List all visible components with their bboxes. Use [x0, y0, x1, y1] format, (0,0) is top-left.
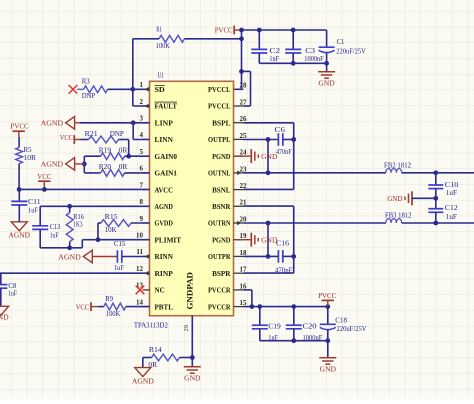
pin 11 (RINN) — [136, 248, 173, 261]
wire C15 to pin 11 RINN — [122, 254, 150, 259]
junction BS column bottom — [291, 254, 296, 259]
IC U1 TPA3113D2 body — [134, 71, 234, 330]
ground AGND (below C11) — [9, 222, 31, 240]
svg-text:GND: GND — [387, 194, 403, 203]
svg-text:19: 19 — [240, 232, 248, 240]
wire R19 to pin 5 GAIN0 — [125, 155, 150, 157]
junction OUTPR node — [266, 254, 271, 259]
svg-text:RINP: RINP — [155, 269, 174, 278]
junction cap bottom rail 2 — [291, 338, 330, 343]
junction cap bottom rail — [291, 61, 329, 66]
svg-text:FB3 1812: FB3 1812 — [385, 211, 412, 220]
ground AGND (R14) — [132, 368, 155, 386]
capacitor C20 1000nF — [286, 307, 323, 342]
svg-text:GAIN0: GAIN0 — [155, 152, 178, 161]
resistor R1 100K — [156, 24, 185, 50]
junction PLIMIT — [96, 237, 101, 242]
wire pin 26 BSPL elbow — [244, 123, 294, 140]
ground GND (pin 19 PGND) — [236, 233, 278, 247]
capacitor C18 220uF/25V polarized — [320, 307, 367, 341]
resistor R21 DNP — [81, 129, 124, 143]
pin 18 (OUTPR) — [208, 249, 247, 261]
ground GND (GNDPAD) — [184, 358, 201, 383]
wire R9 to pin 14 PBTL — [126, 306, 150, 308]
svg-text:BSNR: BSNR — [212, 202, 231, 211]
svg-text:R20: R20 — [99, 162, 112, 171]
svg-text:16: 16 — [240, 282, 248, 290]
svg-text:1000nF: 1000nF — [304, 54, 323, 63]
svg-text:PGND: PGND — [212, 152, 231, 161]
pin 4 (LINN) — [140, 131, 174, 144]
pin 5 (GAIN0) — [140, 148, 178, 161]
wire FB3 to output R — [402, 222, 474, 224]
pin 12 (RINP) — [136, 265, 173, 278]
svg-text:AVCC: AVCC — [155, 185, 173, 194]
svg-text:1uF: 1uF — [446, 188, 457, 197]
svg-text:100K: 100K — [106, 309, 121, 318]
wire net SD: R1 left lead down to pin1 node — [133, 39, 159, 90]
wire AVCC rail to pin 7 — [19, 188, 149, 190]
power port PVCC (top) — [215, 26, 242, 35]
wire R21 to GAIN0 node — [119, 140, 129, 157]
ground AGND (C15) — [58, 250, 117, 263]
junction gain AGND — [82, 162, 87, 167]
wire gain AGND column — [83, 156, 85, 173]
svg-text:GVDD: GVDD — [155, 219, 174, 228]
svg-text:2: 2 — [140, 98, 144, 106]
svg-text:15: 15 — [240, 299, 248, 307]
svg-text:VCC: VCC — [60, 133, 73, 142]
ground AGND (gain) — [41, 158, 85, 171]
svg-text:BSNL: BSNL — [212, 185, 230, 194]
resistor R20 0R — [84, 162, 127, 176]
svg-text:220uF/25V: 220uF/25V — [337, 324, 368, 333]
svg-text:C19: C19 — [268, 321, 281, 330]
svg-text:PVCC: PVCC — [318, 291, 336, 300]
svg-text:5: 5 — [140, 148, 144, 156]
junction output L — [433, 170, 438, 175]
svg-text:GND: GND — [320, 365, 337, 374]
capacitor C2 1nF — [251, 30, 280, 63]
svg-text:GND: GND — [318, 79, 335, 88]
capacitor C11 1uF — [11, 189, 41, 221]
svg-text:1uF: 1uF — [114, 263, 124, 272]
svg-text:PBTL: PBTL — [155, 302, 173, 311]
wire pin 18 OUTPR — [244, 255, 279, 257]
junction output GND rail — [433, 196, 438, 201]
junction node SD — [130, 87, 135, 92]
svg-text:11: 11 — [136, 248, 143, 256]
pin 7 (AVCC) — [140, 181, 173, 194]
svg-text:OUTNL: OUTNL — [208, 169, 231, 178]
svg-text:PVCCL: PVCCL — [208, 85, 231, 94]
pin 1 (SD) — [140, 81, 166, 94]
svg-text:4: 4 — [140, 131, 144, 139]
wire pin 20 OUTRN to FB3 — [237, 221, 386, 226]
svg-text:AGND: AGND — [132, 377, 155, 386]
wire R14 right to GNDPAD net — [180, 357, 193, 359]
wire AGND to pin 3 LINP — [80, 122, 150, 124]
wire pin 21 BSNR elbow — [244, 206, 294, 256]
junction R16 bottom — [67, 245, 72, 250]
svg-text:R21: R21 — [85, 129, 98, 138]
wire pin 16 PVCCR elbow — [244, 290, 252, 307]
pin 8 (AGND) — [140, 198, 174, 211]
junction AVCC rail — [17, 187, 47, 192]
capacitor C16 470nF — [275, 239, 293, 275]
svg-text:BSPR: BSPR — [212, 269, 231, 278]
power port VCC (R21) — [60, 133, 81, 144]
svg-text:14: 14 — [136, 298, 144, 306]
svg-text:VCC: VCC — [37, 172, 51, 181]
svg-text:FAULT: FAULT — [155, 102, 178, 111]
svg-text:C16: C16 — [276, 239, 289, 248]
svg-text:PVCCR: PVCCR — [208, 286, 231, 295]
pin 29 (GNDPAD) stub wire — [183, 316, 192, 358]
wire LINP to pin 4 LINN — [133, 123, 149, 140]
power port VCC (R9) — [76, 302, 98, 311]
resistor R3 DNP — [82, 77, 108, 100]
resistor R19 0R — [84, 146, 127, 160]
svg-text:100K: 100K — [156, 41, 171, 50]
no-connect X pin 13 — [136, 286, 145, 295]
svg-text:AGND: AGND — [58, 252, 81, 261]
pin 24 (PGND) — [212, 149, 247, 161]
pin 25 (OUTPL) — [208, 132, 247, 144]
svg-text:U1: U1 — [158, 71, 165, 80]
svg-text:10: 10 — [136, 232, 144, 240]
svg-text:R1: R1 — [156, 24, 162, 33]
capacitor C3 1000nF — [285, 30, 323, 63]
junction output R — [433, 221, 438, 226]
svg-text:29: 29 — [183, 324, 190, 331]
wire C16 right to BS column — [283, 255, 294, 257]
wire pin 12 RINP long — [0, 271, 150, 276]
capacitor C1 220uF/25V polarized — [319, 30, 367, 63]
junction PVCC rail — [239, 28, 296, 33]
capacitor C10 1uF — [428, 173, 458, 199]
ground GND (top block) — [318, 63, 335, 87]
wire PLIMIT lower rail — [40, 240, 98, 248]
pin 23 (OUTNL) — [208, 165, 247, 177]
svg-text:470nF: 470nF — [276, 147, 292, 156]
junction GAIN0 — [126, 154, 131, 159]
svg-text:R19: R19 — [99, 146, 112, 155]
resistor R16 1K3 — [66, 206, 84, 248]
resistor R9 100K — [98, 294, 126, 318]
svg-text:FB2 1812: FB2 1812 — [384, 160, 411, 169]
capacitor C8 1uF (clipped at edge) — [0, 273, 17, 306]
svg-text:BSPL: BSPL — [212, 118, 230, 127]
junction R1/PVCC column — [239, 36, 244, 73]
svg-text:1: 1 — [140, 81, 144, 89]
svg-text:1uF: 1uF — [50, 230, 59, 239]
capacitor C19 1nF — [252, 307, 281, 342]
svg-text:TPA3113D2: TPA3113D2 — [134, 321, 168, 330]
wire R15 to pin 9 GVDD — [131, 222, 150, 224]
junction OUTNL — [266, 170, 271, 175]
pin 21 (BSNR) — [212, 199, 247, 211]
pin 20 (OUTRN) — [208, 215, 247, 227]
svg-text:1K3: 1K3 — [73, 219, 83, 228]
power port PVCC (left) — [11, 122, 29, 137]
svg-text:7: 7 — [140, 181, 144, 189]
ground GND (output filter) — [387, 191, 436, 205]
wire R1 right lead to PVCC column — [185, 38, 242, 40]
junction PVCCR rail — [250, 304, 331, 309]
wire R3 to pin 1 — [108, 87, 150, 92]
wire R14 left to AGND — [143, 358, 152, 368]
svg-text:3: 3 — [140, 115, 144, 123]
pin 19 (PGND) — [212, 232, 247, 244]
junction BS column top — [291, 137, 296, 142]
svg-text:GAIN1: GAIN1 — [155, 169, 178, 178]
junction OUTPL node — [266, 137, 271, 142]
junction OUTRN — [266, 221, 271, 226]
wire drop to pin 2 FAULT — [133, 89, 150, 108]
svg-text:1uF: 1uF — [8, 288, 17, 297]
wire OUTPL to OUTNL tie — [267, 140, 269, 173]
svg-text:220uF/25V: 220uF/25V — [336, 46, 366, 55]
svg-text:0R: 0R — [119, 146, 128, 155]
power port VCC (left) — [37, 172, 51, 190]
svg-text:C20: C20 — [303, 321, 317, 330]
svg-text:AGND: AGND — [9, 230, 31, 239]
wire cap bottom rail (top block) — [259, 62, 326, 64]
svg-text:R9: R9 — [105, 294, 113, 303]
wire pin 8 AGND net — [40, 205, 149, 207]
resistor R15 10K — [98, 212, 131, 240]
pin 3 (LINP) — [140, 115, 174, 128]
svg-text:PVCCL: PVCCL — [208, 102, 231, 111]
wire PVCC rail top — [242, 29, 327, 31]
svg-text:PVCC: PVCC — [11, 122, 29, 131]
pin 16 (PVCCR) — [208, 282, 247, 294]
svg-text:AGND: AGND — [41, 119, 64, 128]
pin 14 (PBTL) — [136, 298, 173, 311]
svg-text:AGND: AGND — [155, 202, 174, 211]
ferrite bead FB2 1812 — [384, 160, 411, 173]
svg-text:10K: 10K — [105, 225, 118, 234]
resistor R5 10R — [16, 137, 36, 164]
svg-text:R15: R15 — [105, 212, 118, 221]
svg-text:R14: R14 — [149, 345, 162, 354]
svg-text:C1: C1 — [337, 37, 345, 46]
svg-text:PLIMIT: PLIMIT — [155, 235, 182, 244]
svg-text:6: 6 — [140, 165, 144, 173]
pin 28 (PVCCL) — [208, 82, 247, 94]
svg-text:DNP: DNP — [82, 91, 96, 100]
wire R5 to AVCC rail — [18, 164, 20, 190]
ground GND (pin 24 PGND) — [236, 149, 278, 163]
pin 13 (NC) — [136, 282, 165, 295]
ground AGND (C8, clipped) — [0, 306, 9, 321]
capacitor C6 470nF — [275, 125, 292, 156]
wire pin 25 OUTPL — [244, 139, 279, 141]
svg-text:PGND: PGND — [212, 235, 231, 244]
pin 26 (BSPL) — [212, 115, 247, 127]
svg-text:26: 26 — [240, 115, 248, 123]
svg-text:10R: 10R — [24, 153, 37, 162]
wire cap bottom rail (bottom block) — [260, 340, 328, 342]
power port PVCC (bottom) — [318, 291, 336, 307]
svg-text:1nF: 1nF — [269, 54, 279, 63]
svg-text:RINN: RINN — [155, 252, 174, 261]
junction R16 top — [67, 204, 72, 209]
svg-text:VCC: VCC — [76, 303, 90, 312]
pin 10 (PLIMIT) — [136, 232, 181, 245]
wire R20 to pin 6 GAIN1 — [125, 172, 150, 174]
svg-text:C6: C6 — [275, 125, 286, 134]
wire PVCC column to pins 28/27 — [236, 30, 251, 106]
no-connect X on R3 left — [69, 85, 84, 94]
svg-text:PVCCR: PVCCR — [208, 302, 231, 311]
ferrite bead FB3 1812 — [385, 211, 412, 223]
wire FB2 to output L — [402, 172, 474, 174]
svg-text:8: 8 — [140, 198, 144, 206]
svg-text:AGND: AGND — [41, 160, 64, 169]
svg-text:0R: 0R — [119, 162, 128, 171]
resistor R14 0R — [148, 345, 179, 369]
capacitor C15 1uF — [114, 239, 126, 272]
capacitor C13 1uF — [32, 206, 60, 248]
svg-text:C15: C15 — [114, 239, 126, 248]
svg-text:NC: NC — [155, 286, 165, 295]
svg-text:LINP: LINP — [155, 118, 174, 127]
pin 9 (GVDD) — [140, 215, 174, 228]
svg-text:1uF: 1uF — [28, 205, 38, 214]
svg-text:GND: GND — [261, 152, 278, 161]
svg-text:LINN: LINN — [155, 135, 174, 144]
svg-text:25: 25 — [240, 132, 248, 140]
svg-text:9: 9 — [140, 215, 144, 223]
wire PVCCR rail — [244, 306, 328, 308]
pin 2 (FAULT) — [140, 98, 178, 111]
svg-text:DNP: DNP — [110, 129, 124, 138]
svg-text:AGND: AGND — [0, 313, 9, 322]
svg-text:GND: GND — [184, 374, 201, 383]
wire pin 10 PLIMIT — [98, 239, 150, 241]
svg-text:1uF: 1uF — [446, 212, 457, 221]
pin 6 (GAIN1) — [140, 165, 178, 178]
wire OUTRN to OUTPR tie — [267, 223, 269, 256]
junction GNDPAD net — [190, 355, 195, 360]
capacitor C12 1uF — [428, 198, 458, 223]
ground GND (bottom block) — [319, 341, 336, 374]
svg-text:12: 12 — [136, 265, 144, 273]
ground AGND (pin3) — [41, 117, 80, 130]
svg-text:OUTRN: OUTRN — [208, 219, 231, 228]
junction LINP — [131, 120, 136, 125]
svg-text:SD: SD — [155, 85, 166, 94]
svg-text:OUTPL: OUTPL — [208, 135, 231, 144]
svg-text:PVCC: PVCC — [215, 26, 233, 35]
wire C6 right to BS column — [283, 139, 294, 141]
wire pin 23 OUTNL to FB2 — [237, 171, 386, 176]
pin 27 (PVCCL) — [208, 98, 247, 110]
pin 22 (BSNL) — [212, 182, 247, 194]
pin 15 (PVCCR) — [208, 299, 247, 311]
svg-text:R3: R3 — [82, 77, 90, 86]
wire pin 17 BSPR elbow — [244, 256, 294, 273]
svg-text:OUTPR: OUTPR — [208, 252, 231, 261]
pin 17 (BSPR) — [212, 266, 247, 278]
svg-text:GNDPAD: GNDPAD — [185, 272, 194, 310]
wire pin 22 BSNL elbow — [244, 140, 294, 190]
